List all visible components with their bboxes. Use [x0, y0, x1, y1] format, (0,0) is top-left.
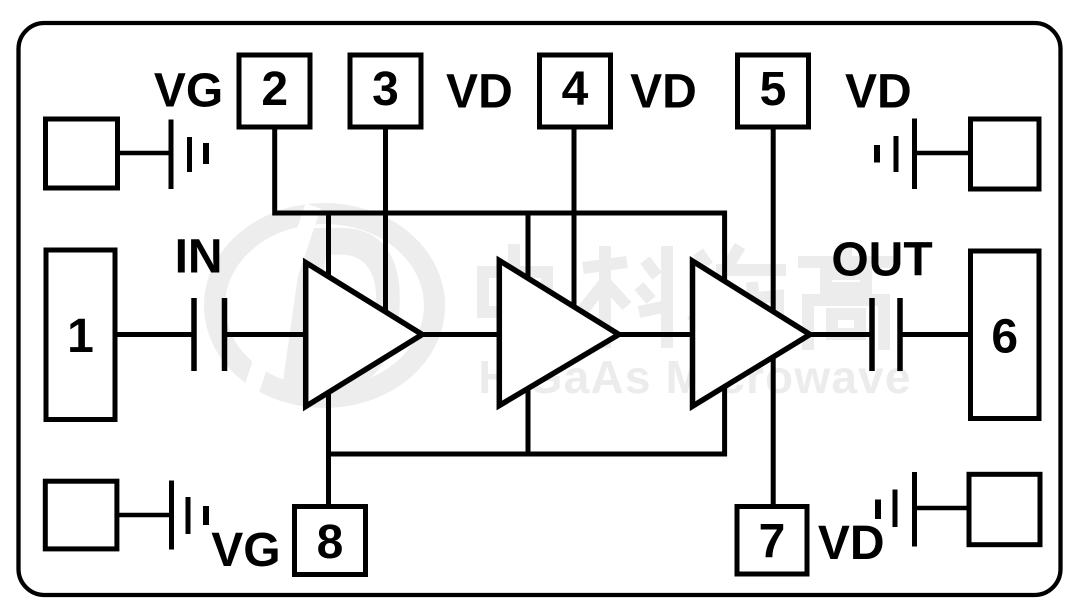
- pad top-right: [971, 119, 1040, 189]
- pin 7 box: [737, 507, 807, 575]
- op-amp A2: [499, 261, 619, 406]
- wire pin2 drop + top bus + right drop: [275, 127, 725, 456]
- svg-text:IN: IN: [175, 231, 223, 284]
- pad bottom-right: [969, 474, 1040, 544]
- watermark logo ring: [215, 214, 435, 398]
- capacitor C-out plate1: [869, 298, 875, 371]
- watermark char 海: [692, 246, 786, 346]
- svg-text:OUT: OUT: [831, 234, 932, 287]
- capacitor C-in plate2: [222, 298, 228, 371]
- wire stage2 bias drop: [526, 213, 531, 456]
- capacitor C-in plate1: [191, 298, 197, 371]
- svg-text:1: 1: [67, 310, 94, 363]
- svg-text:3: 3: [372, 63, 399, 116]
- wire pin1 to input cap: [116, 332, 194, 337]
- wire pad-BR to cap: [915, 506, 970, 511]
- watermark char 中: [483, 244, 547, 352]
- capacitor VG-BL plates: [172, 481, 207, 550]
- capacitor VD-TR plates: [877, 119, 915, 190]
- svg-text:VD: VD: [818, 517, 885, 570]
- pin 4 box: [540, 55, 611, 127]
- svg-text:VD: VD: [845, 66, 912, 119]
- pin 1 box: [46, 250, 115, 420]
- svg-text:7: 7: [759, 516, 786, 569]
- wire output cap to pin6: [900, 332, 970, 337]
- wire input cap to amp1: [225, 332, 309, 337]
- wire pad-TR to cap: [915, 151, 971, 156]
- svg-text:VD: VD: [630, 66, 697, 119]
- pin 6 box: [971, 251, 1040, 419]
- pin 2 box: [239, 55, 310, 127]
- capacitor VG-TL plates: [171, 120, 206, 190]
- wire amp3 to output cap: [808, 332, 872, 337]
- op-amp A1: [306, 263, 423, 407]
- svg-text:VG: VG: [211, 524, 280, 577]
- wire pin3 drop: [383, 127, 388, 315]
- svg-text:6: 6: [991, 311, 1018, 364]
- pin 5 box: [738, 55, 809, 127]
- svg-text:VG: VG: [154, 65, 223, 118]
- watermark char 高: [798, 242, 894, 350]
- watermark char 科: [583, 246, 667, 348]
- capacitor VD-BR plates: [878, 472, 915, 547]
- pin 3 box: [350, 55, 421, 127]
- watermark logo slash: [240, 206, 313, 424]
- wire pin4 drop: [572, 127, 577, 310]
- pad bottom-left: [45, 481, 117, 549]
- wire pad-BL to cap: [117, 513, 172, 518]
- op-amp A3: [693, 261, 811, 406]
- wire amp2 to amp3: [616, 332, 694, 337]
- wire left drop to pin8: [326, 213, 331, 506]
- pin 8 box: [295, 507, 366, 575]
- wire amp1 to amp2: [420, 332, 501, 337]
- wire pad-TL to cap: [118, 151, 172, 156]
- wire pin5 to pin7 drop: [771, 127, 776, 506]
- svg-text:4: 4: [562, 63, 589, 116]
- pad top-left: [46, 119, 118, 188]
- watermark logo D glyph: [278, 176, 405, 444]
- svg-text:VD: VD: [446, 66, 513, 119]
- svg-text:5: 5: [760, 63, 787, 116]
- svg-text:2: 2: [261, 63, 288, 116]
- svg-text:8: 8: [317, 516, 344, 569]
- wire bottom bus: [326, 452, 727, 457]
- capacitor C-out plate2: [897, 298, 903, 371]
